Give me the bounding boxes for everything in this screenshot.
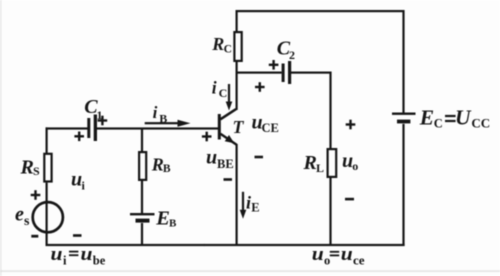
plus sign uo bbox=[346, 120, 356, 130]
node label uo = uce bbox=[312, 244, 365, 268]
plus sign above es bbox=[31, 190, 41, 200]
plus sign uCE bbox=[255, 82, 265, 92]
svg-text:R: R bbox=[211, 34, 224, 54]
svg-text:E: E bbox=[155, 208, 170, 230]
wire: RL branch vertical lower bbox=[329, 178, 331, 246]
battery EC bbox=[392, 113, 416, 124]
minus sign below es bbox=[31, 235, 38, 238]
svg-text:B: B bbox=[169, 218, 177, 230]
svg-text:o: o bbox=[324, 254, 330, 268]
svg-text:S: S bbox=[33, 164, 40, 178]
wire: left branch vertical upper (to RS) bbox=[46, 127, 48, 153]
svg-text:B: B bbox=[159, 112, 167, 126]
svg-text:e: e bbox=[15, 203, 24, 225]
wire: RB to EB bbox=[141, 181, 143, 213]
wire: bottom bus bbox=[46, 244, 205, 246]
label EC = UCC bbox=[419, 106, 490, 131]
svg-text:E: E bbox=[251, 201, 259, 215]
wire: EB to bottom bus bbox=[141, 223, 143, 246]
svg-text:u: u bbox=[51, 244, 63, 265]
svg-text:C: C bbox=[224, 44, 232, 56]
node label ui = ube bbox=[51, 244, 106, 268]
capacitor C1 bbox=[87, 115, 97, 142]
resistor RS bbox=[44, 154, 51, 182]
svg-text:i: i bbox=[212, 78, 217, 98]
capacitor C2 bbox=[282, 61, 292, 84]
resistor RC bbox=[234, 32, 241, 61]
wire: RL branch vertical upper bbox=[329, 72, 331, 149]
resistor RB bbox=[139, 152, 146, 180]
svg-text:o: o bbox=[352, 159, 358, 173]
svg-text:u: u bbox=[312, 244, 324, 265]
current arrow iB bbox=[145, 120, 191, 127]
wire: RB branch vertical upper bbox=[141, 128, 143, 152]
battery EB bbox=[130, 213, 155, 223]
wire: collector vertical below RC to transistor bbox=[236, 62, 238, 110]
svg-text:i: i bbox=[153, 103, 158, 122]
svg-text:CC: CC bbox=[471, 116, 490, 131]
svg-text:u: u bbox=[206, 147, 217, 169]
wire: emitter branch vertical bbox=[236, 144, 238, 246]
wire: EC branch vertical upper bbox=[402, 10, 404, 113]
svg-text:i: i bbox=[63, 254, 67, 268]
plus sign right of C1 bbox=[98, 116, 108, 126]
minus sign below ui bbox=[73, 234, 82, 237]
current arrow iE bbox=[240, 192, 247, 219]
wire: bottom bus right part bbox=[204, 244, 405, 246]
svg-text:u: u bbox=[81, 244, 93, 265]
svg-text:2: 2 bbox=[289, 48, 295, 62]
svg-text:BE: BE bbox=[217, 157, 234, 171]
source es circle bbox=[33, 202, 63, 232]
minus sign below uBE bbox=[224, 178, 233, 181]
wire: left branch vertical lower (through source) bbox=[46, 183, 48, 246]
transistor T: base bar bbox=[218, 114, 221, 140]
wire: top bus from collector branch to EC branch bbox=[236, 10, 405, 12]
svg-text:u: u bbox=[71, 169, 82, 191]
transistor T: emitter lead diagonal with arrow bbox=[220, 134, 236, 145]
svg-text:i: i bbox=[246, 193, 251, 213]
svg-text:s: s bbox=[24, 214, 30, 229]
wire: C2 branch horizontal left part bbox=[236, 72, 282, 74]
input wire: left segment to C1 bbox=[46, 127, 88, 129]
transistor T: collector lead diagonal bbox=[220, 109, 236, 119]
svg-text:CE: CE bbox=[262, 121, 279, 135]
svg-text:R: R bbox=[303, 152, 317, 174]
svg-text:C: C bbox=[434, 117, 443, 131]
svg-text:be: be bbox=[93, 254, 106, 268]
svg-text:u: u bbox=[341, 244, 353, 265]
svg-text:R: R bbox=[20, 156, 34, 178]
input wire: C1 to transistor base bbox=[97, 127, 219, 129]
minus sign uCE bbox=[255, 156, 264, 159]
svg-text:E: E bbox=[419, 106, 434, 130]
svg-text:ce: ce bbox=[353, 253, 365, 268]
minus sign uo bbox=[345, 198, 354, 201]
svg-text:T: T bbox=[233, 117, 245, 137]
wire: EC branch vertical lower bbox=[402, 124, 404, 246]
resistor RL bbox=[328, 149, 337, 177]
svg-text:U: U bbox=[455, 106, 472, 130]
plus sign at base bbox=[202, 132, 212, 142]
svg-text:C: C bbox=[219, 86, 228, 100]
svg-text:R: R bbox=[151, 154, 164, 174]
plus sign near C2 bbox=[269, 60, 279, 70]
svg-text:L: L bbox=[316, 161, 324, 175]
wire: collector vertical top (to RC) bbox=[236, 10, 238, 32]
current arrow iC bbox=[226, 84, 233, 111]
wire: C2 branch horizontal right part bbox=[291, 72, 332, 74]
plus sign left below C1 bbox=[74, 132, 84, 142]
svg-text:B: B bbox=[163, 163, 171, 175]
